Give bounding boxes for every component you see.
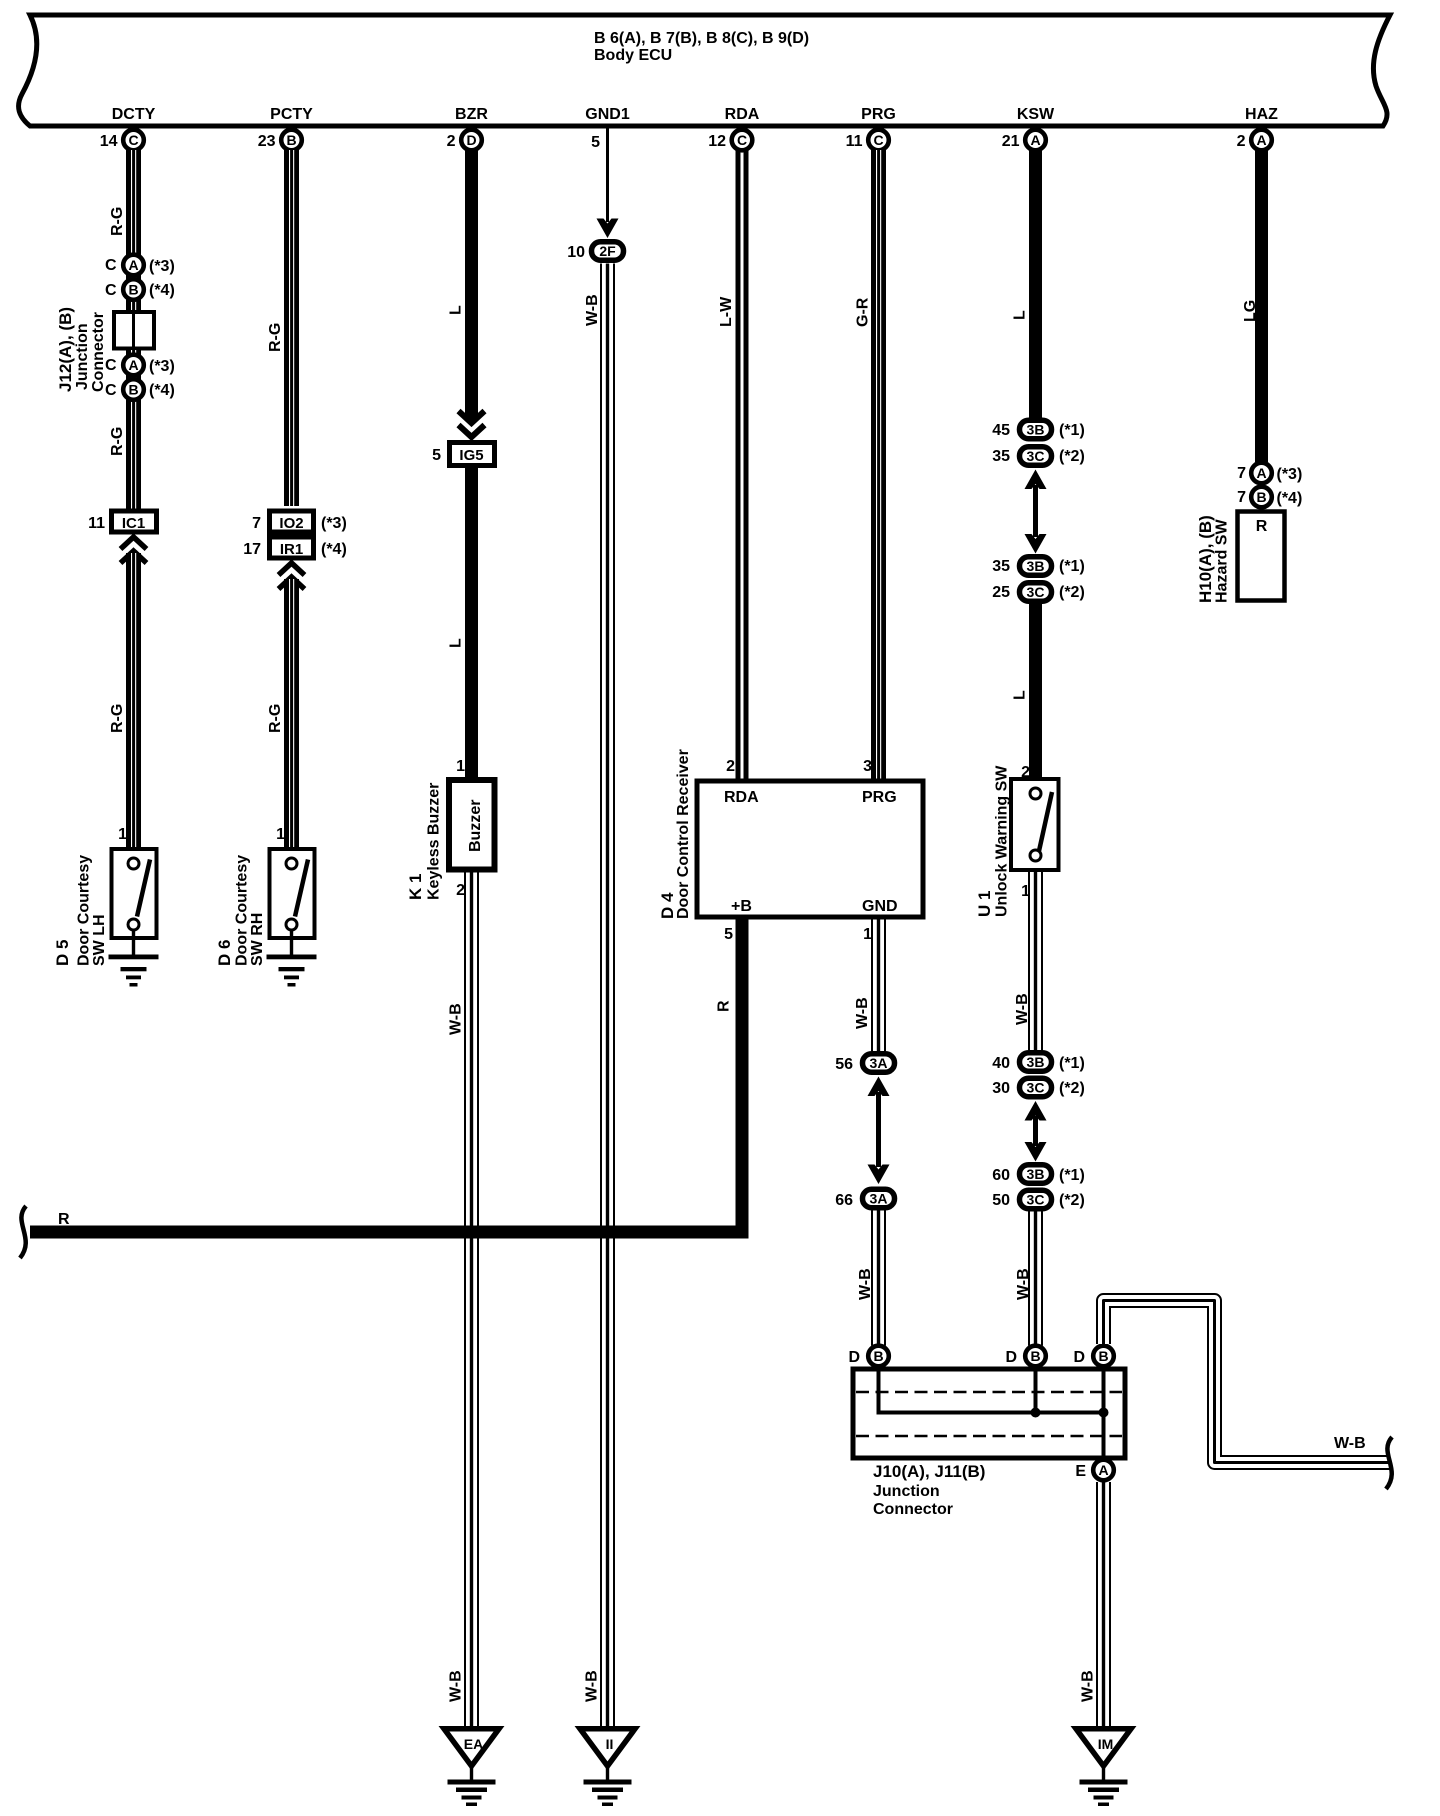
svg-text:D: D [1005,1349,1017,1366]
svg-text:R: R [58,1211,70,1228]
shield arrows KSW lower [1025,1101,1047,1162]
svg-text:K 1: K 1 [406,874,425,900]
svg-text:W-B: W-B [448,1003,465,1035]
svg-text:II: II [606,1736,614,1752]
pin GND1 [585,106,630,151]
connector 60 3B (*1) [992,1165,1085,1184]
svg-text:G-R: G-R [855,297,872,327]
svg-text:A: A [1256,465,1266,481]
svg-text:3C: 3C [1027,1080,1045,1096]
svg-text:(*3): (*3) [1277,466,1303,483]
door courtesy switch D5 [112,849,157,938]
wire R from +B [30,920,742,1233]
svg-text:Keyless Buzzer: Keyless Buzzer [426,783,443,900]
svg-text:3B: 3B [1027,422,1045,438]
svg-text:2: 2 [456,882,465,899]
svg-text:R: R [1256,518,1268,535]
keyless buzzer K1 [449,780,495,870]
svg-text:A: A [128,357,138,373]
svg-text:R: R [716,1000,733,1012]
svg-text:5: 5 [591,134,600,151]
svg-text:3C: 3C [1027,448,1045,464]
svg-text:2: 2 [447,133,456,150]
pin 3 D4 [863,758,872,775]
svg-text:IC1: IC1 [122,515,145,532]
wire W-B to IM ground [1080,1482,1112,1726]
svg-text:7: 7 [1237,465,1246,482]
svg-text:W-B: W-B [1015,1268,1032,1300]
svg-text:B: B [128,382,138,398]
pin 5 D4 +B [724,926,733,943]
svg-text:3B: 3B [1027,1054,1045,1070]
svg-text:(*1): (*1) [1059,1055,1085,1072]
svg-text:(*3): (*3) [149,358,175,375]
svg-text:R-G: R-G [267,704,284,733]
Body ECU box B6(A),B7(B),B8(C),B9(D) [19,15,1390,126]
svg-text:(*4): (*4) [149,282,175,299]
label D4 Door Control Receiver [658,749,692,919]
svg-text:GND: GND [862,898,898,915]
connector D/B PRG [848,1346,888,1367]
wire W-B D4 GND [854,920,886,1052]
svg-text:D 5: D 5 [53,940,72,966]
svg-text:E: E [1075,1463,1086,1480]
connector 30 3C (*2) [992,1078,1085,1097]
svg-text:KSW: KSW [1017,106,1055,123]
arrow chevrons up to IC1 [121,537,147,563]
svg-text:B: B [286,132,296,148]
connector 40 3B (*1) [992,1053,1085,1072]
connector 7 B (*4) [1237,487,1302,508]
svg-text:21: 21 [1002,133,1020,150]
connector 56 3A [835,1054,894,1073]
junction internal bus [877,1369,1109,1458]
wire L BZR upper [448,150,479,420]
arrow chevrons down to IG5 [459,411,485,437]
svg-text:45: 45 [992,422,1010,439]
svg-text:A: A [1030,132,1040,148]
wire G-R PRG [855,150,887,781]
svg-text:Door Control Receiver: Door Control Receiver [675,749,692,919]
svg-text:7: 7 [252,515,261,532]
svg-text:Connector: Connector [90,312,107,392]
pin 2 D4 [726,758,735,775]
svg-text:RDA: RDA [725,106,760,123]
svg-text:EA: EA [464,1736,483,1752]
connector J12 pin C/A (*3) [105,255,175,276]
wire R-G PCTY upper [267,150,299,506]
connector D/B KSW [1005,1346,1045,1367]
label D6 Door Courtesy SW RH [215,855,266,966]
svg-text:D: D [848,1349,860,1366]
svg-text:D: D [1073,1349,1085,1366]
pin PCTY [258,106,313,150]
svg-text:(*3): (*3) [149,258,175,275]
hazard switch H10 [1238,512,1285,601]
svg-text:GND1: GND1 [585,106,630,123]
svg-text:60: 60 [992,1167,1010,1184]
svg-text:50: 50 [992,1192,1010,1209]
svg-text:C: C [105,382,117,399]
svg-text:3A: 3A [870,1055,888,1071]
svg-text:3A: 3A [870,1191,888,1207]
svg-text:IO2: IO2 [279,515,303,532]
label U1 Unlock Warning SW [975,765,1011,917]
svg-text:(*1): (*1) [1059,422,1085,439]
wire W-B to right break [1104,1301,1391,1463]
connector IG5 [432,443,494,466]
svg-text:W-B: W-B [584,294,601,326]
svg-text:R-G: R-G [109,704,126,733]
svg-text:A: A [1256,132,1266,148]
svg-text:(*2): (*2) [1059,448,1085,465]
svg-text:D: D [466,132,476,148]
svg-text:U 1: U 1 [975,891,994,917]
svg-text:R-G: R-G [109,427,126,456]
pin 1 D6 [276,826,285,843]
pin HAZ [1237,106,1279,150]
ground D6 [267,930,317,987]
svg-text:IM: IM [1098,1736,1114,1752]
svg-text:1: 1 [276,826,285,843]
wire L KSW upper [1012,150,1043,418]
pin 1 D4 GND [863,926,872,943]
pin 1 U1 [1021,883,1030,900]
wire R-G DCTY upper [109,150,141,310]
wire W-B BZR [448,873,480,1727]
svg-text:1: 1 [118,826,127,843]
wire R-G PCTY lower [267,579,299,848]
svg-text:PCTY: PCTY [270,106,313,123]
svg-text:L: L [448,638,465,648]
svg-text:(*2): (*2) [1059,584,1085,601]
ground EA [444,1729,499,1806]
svg-text:W-B: W-B [1334,1435,1366,1452]
svg-text:3C: 3C [1027,1192,1045,1208]
label H10(A),(B) Hazard SW [1196,515,1231,603]
connector J12 out pin C/A (*3) [105,355,175,376]
wire W-B GND1 [584,264,616,1727]
pin BZR [447,106,489,150]
shield arrows KSW upper [1025,470,1047,554]
svg-text:23: 23 [258,133,276,150]
wire W-B KSW mid [1014,872,1043,1050]
connector 35 3B (*1) [992,557,1085,576]
connector J12 out pin C/B (*4) [105,379,175,400]
svg-text:W-B: W-B [1080,1670,1097,1702]
label J12(A),(B) Junction Connector [56,307,107,392]
svg-text:12: 12 [708,133,726,150]
break symbol left [20,1206,26,1258]
svg-text:+B: +B [731,898,752,915]
svg-text:(*2): (*2) [1059,1192,1085,1209]
svg-text:35: 35 [992,558,1010,575]
pin 2 U1 [1021,764,1030,781]
svg-text:J12(A), (B): J12(A), (B) [56,307,75,392]
svg-text:17: 17 [243,541,261,558]
connector 35 3C (*2) [992,447,1085,466]
svg-text:(*1): (*1) [1059,558,1085,575]
svg-text:J10(A), J11(B): J10(A), J11(B) [873,1462,985,1481]
svg-text:2: 2 [726,758,735,775]
svg-text:A: A [128,257,138,273]
wire L KSW lower [1012,604,1043,779]
svg-text:Door Courtesy: Door Courtesy [234,855,251,966]
svg-text:IR1: IR1 [280,541,303,558]
break symbol right [1386,1437,1392,1489]
ground II [580,1729,635,1806]
wire LG HAZ [1242,150,1268,462]
svg-text:W-B: W-B [854,997,871,1029]
svg-text:D 6: D 6 [215,940,234,966]
svg-text:Junction: Junction [74,323,91,390]
svg-text:5: 5 [432,447,441,464]
pin PRG [846,106,896,150]
svg-text:C: C [105,282,117,299]
svg-text:C: C [873,132,883,148]
svg-text:SW LH: SW LH [91,914,108,966]
arrow to 2F [597,219,619,239]
ground IM [1076,1729,1131,1806]
svg-text:Body ECU: Body ECU [594,47,672,64]
svg-text:H10(A), (B): H10(A), (B) [1196,515,1215,603]
svg-text:Buzzer: Buzzer [467,800,484,852]
svg-text:2F: 2F [599,243,616,259]
connector 25 3C (*2) [992,583,1085,602]
svg-text:C: C [128,132,138,148]
arrow chevrons up to IR1 [279,563,305,589]
svg-text:1: 1 [863,926,872,943]
svg-text:HAZ: HAZ [1245,106,1278,123]
svg-text:L-W: L-W [718,296,735,327]
svg-text:2: 2 [1237,133,1246,150]
label J10(A),J11(B) Junction Connector [873,1462,985,1518]
svg-text:B 6(A), B 7(B), B 8(C), B 9(D): B 6(A), B 7(B), B 8(C), B 9(D) [594,30,809,47]
svg-text:(*1): (*1) [1059,1167,1085,1184]
svg-text:(*4): (*4) [321,541,347,558]
connector IC1 [88,511,156,532]
svg-text:R-G: R-G [109,207,126,236]
svg-text:C: C [105,257,117,274]
svg-text:W-B: W-B [1014,993,1031,1025]
svg-text:Hazard SW: Hazard SW [1214,519,1231,603]
svg-text:B: B [1256,489,1266,505]
pin 2 buzzer [456,882,465,899]
wire R-G DCTY lower [109,553,141,848]
svg-text:Unlock Warning SW: Unlock Warning SW [994,765,1011,917]
pin 1 buzzer [456,758,465,775]
svg-text:3B: 3B [1027,1166,1045,1182]
svg-text:PRG: PRG [862,789,897,806]
svg-text:25: 25 [992,584,1010,601]
svg-text:5: 5 [724,926,733,943]
svg-text:B: B [1030,1348,1040,1364]
svg-text:3C: 3C [1027,584,1045,600]
pin DCTY [100,106,156,150]
label K1 Keyless Buzzer [406,783,443,900]
connector J12 pin C/B (*4) [105,279,175,300]
svg-text:W-B: W-B [448,1670,465,1702]
ground D5 [109,930,159,987]
svg-text:B: B [1098,1348,1108,1364]
pin RDA [708,106,760,150]
svg-text:C: C [737,132,747,148]
svg-text:L: L [448,305,465,315]
svg-text:(*3): (*3) [321,515,347,532]
wire W-B KSW lower [1015,1212,1043,1346]
svg-text:RDA: RDA [724,789,759,806]
svg-text:40: 40 [992,1055,1010,1072]
svg-text:A: A [1098,1462,1108,1478]
svg-text:11: 11 [846,133,863,150]
svg-text:L: L [1012,310,1029,320]
svg-text:Door Courtesy: Door Courtesy [76,855,93,966]
connector 7 A (*3) [1237,463,1302,484]
wire R-G DCTY middle [109,350,141,509]
wire L-W RDA [718,150,749,781]
svg-text:SW RH: SW RH [249,913,266,966]
pin 1 D5 [118,826,127,843]
svg-text:30: 30 [992,1080,1010,1097]
svg-text:DCTY: DCTY [112,106,156,123]
svg-text:3B: 3B [1027,558,1045,574]
svg-text:(*4): (*4) [149,382,175,399]
door control receiver D4 [697,781,923,917]
pin KSW [1002,106,1055,150]
svg-text:35: 35 [992,448,1010,465]
connector 10 2F [567,242,623,261]
svg-text:L: L [1012,690,1029,700]
svg-text:B: B [128,282,138,298]
connector 45 3B (*1) [992,420,1085,439]
junction connector J10(A),J11(B) box [853,1369,1125,1458]
wire L BZR lower [448,466,479,779]
wire GND1 from pin 5 [606,128,609,222]
svg-text:BZR: BZR [455,106,488,123]
junction connector J12 box [114,312,154,349]
shield arrows PRG [868,1077,890,1185]
wire W-B PRG lower [857,1211,886,1346]
svg-text:14: 14 [100,133,118,150]
svg-text:R-G: R-G [267,323,284,352]
connector 50 3C (*2) [992,1190,1085,1209]
svg-text:10: 10 [567,244,585,261]
connector D/B junction right [1073,1346,1113,1367]
svg-text:66: 66 [835,1192,853,1209]
svg-text:Connector: Connector [873,1501,953,1518]
svg-text:(*4): (*4) [1277,490,1303,507]
door courtesy switch D6 [270,849,315,938]
svg-text:56: 56 [835,1056,853,1073]
svg-text:3: 3 [863,758,872,775]
svg-text:LG: LG [1242,300,1259,322]
svg-text:PRG: PRG [861,106,896,123]
svg-text:IG5: IG5 [459,447,483,464]
svg-text:7: 7 [1237,489,1246,506]
label D5 Door Courtesy SW LH [53,855,108,966]
svg-text:11: 11 [88,515,105,532]
svg-text:B: B [873,1348,883,1364]
connector 66 3A [835,1189,894,1209]
svg-text:Junction: Junction [873,1483,940,1500]
connector E/A junction [1075,1460,1113,1481]
connector IR1 (*4) [243,537,347,558]
svg-text:W-B: W-B [584,1670,601,1702]
svg-text:W-B: W-B [857,1268,874,1300]
svg-text:(*2): (*2) [1059,1080,1085,1097]
connector IO2 (*3) [252,511,347,532]
svg-text:1: 1 [456,758,465,775]
unlock warning switch U1 [1011,779,1059,870]
svg-text:C: C [105,357,117,374]
